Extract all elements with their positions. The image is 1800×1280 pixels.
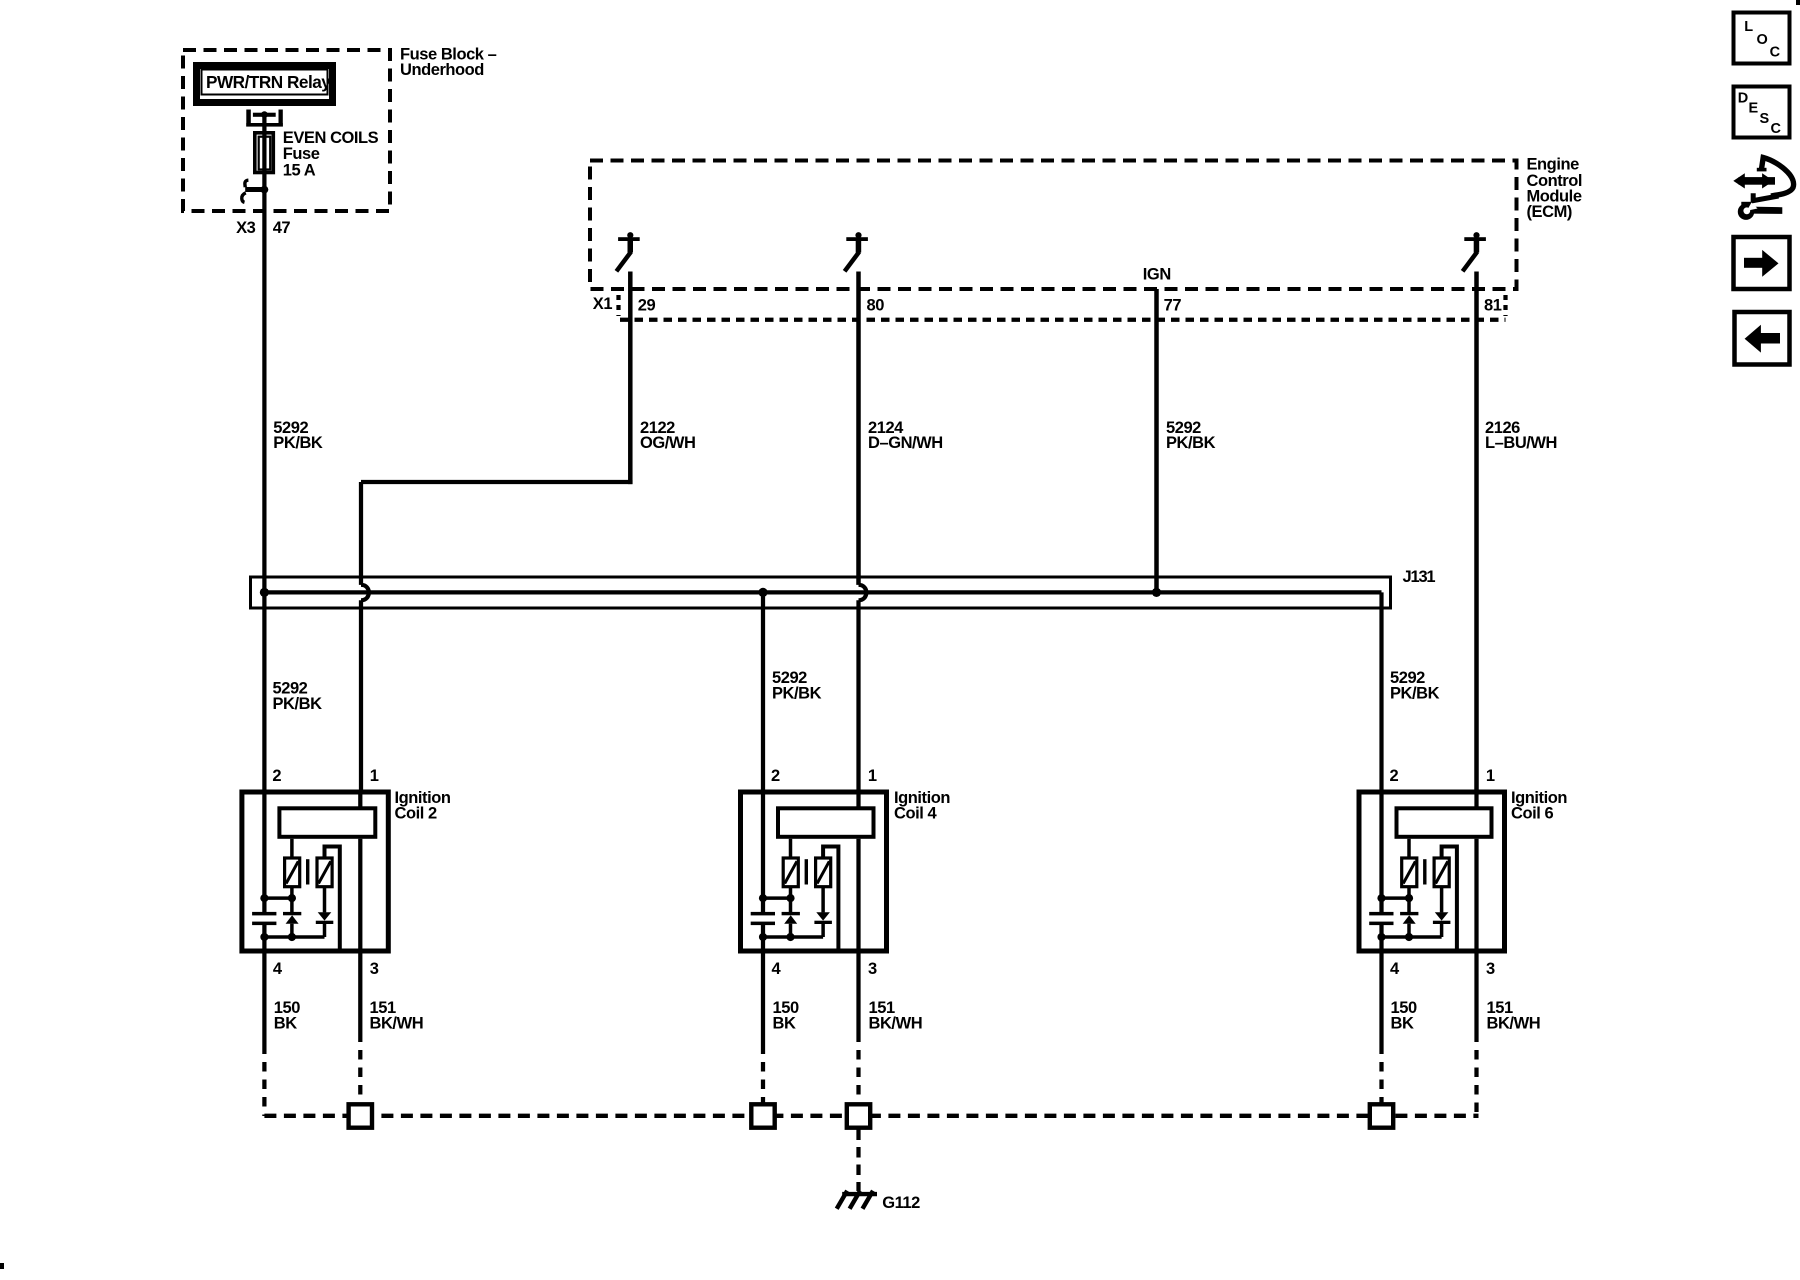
ignition coil 2 box <box>242 792 388 951</box>
hop of wire 2122 over splice bus <box>361 585 369 601</box>
coil 2 capacitor <box>252 912 276 916</box>
wire from relay through fuse <box>262 116 266 189</box>
ground stub to G112 <box>856 1130 860 1192</box>
coil 2 pin 1 internal lead <box>358 792 362 808</box>
svg-text:BK/WH: BK/WH <box>869 1014 923 1032</box>
svg-text:PWR/TRN Relay: PWR/TRN Relay <box>206 72 331 92</box>
svg-text:J131: J131 <box>1403 568 1436 586</box>
coil 4 capacitor <box>751 912 775 916</box>
pin 77 <box>1154 289 1159 592</box>
svg-text:L: L <box>1744 19 1753 35</box>
coil 6 secondary winding <box>1434 858 1449 887</box>
svg-text:PK/BK: PK/BK <box>273 695 323 713</box>
wire 2122 OG/WH vertical to coil 2 pin 1 <box>359 482 363 585</box>
coil 6 avalanche diode <box>1400 912 1418 915</box>
wire 5292 PK/BK from fuse block to splice <box>262 189 266 792</box>
ground bus dashed wire <box>264 1114 1478 1118</box>
wire 151 BK/WH coil 2 pin 3 <box>358 954 362 1043</box>
coil 6 node B jumper <box>1382 935 1442 939</box>
svg-text:80: 80 <box>867 296 885 314</box>
coil 4 node A jumper <box>763 896 791 900</box>
svg-text:2: 2 <box>272 767 281 785</box>
coil 2 node B jumper <box>264 935 324 939</box>
svg-text:Coil 6: Coil 6 <box>1511 804 1553 822</box>
coil 4 connector bar <box>778 808 874 837</box>
sidebar DESC icon <box>1734 87 1790 138</box>
wire 151 BK/WH coil 4 pin 3 <box>856 954 860 1043</box>
pin 81 <box>1474 272 1479 793</box>
svg-text:2: 2 <box>771 767 780 785</box>
svg-text:PK/BK: PK/BK <box>772 684 822 702</box>
svg-text:BK: BK <box>773 1014 796 1032</box>
svg-text:OG/WH: OG/WH <box>640 434 696 452</box>
coil 6 secondary diode <box>1440 887 1444 913</box>
splice square coil 2 pin 3 <box>349 1104 372 1127</box>
svg-text:15 A: 15 A <box>283 161 316 179</box>
svg-text:4: 4 <box>273 960 283 978</box>
svg-text:D: D <box>1738 90 1748 106</box>
relay K: PWR/TRN Relay label box <box>197 66 333 103</box>
coil 6 node A jumper <box>1382 896 1410 900</box>
svg-text:3: 3 <box>868 960 877 978</box>
coil 4 pin 3 internal lead <box>856 839 860 954</box>
coil 2 secondary diode <box>323 887 327 913</box>
svg-text:1: 1 <box>868 767 877 785</box>
svg-text:47: 47 <box>273 219 291 237</box>
svg-text:3: 3 <box>1486 960 1495 978</box>
wire 150 BK coil 6 pin 4 <box>1379 954 1383 1055</box>
svg-text:Engine: Engine <box>1527 156 1580 174</box>
svg-text:BK: BK <box>274 1014 297 1032</box>
coil 6 primary winding <box>1402 858 1417 887</box>
coil 4 primary winding top lead <box>789 839 793 857</box>
coil 2 primary winding top lead <box>290 839 294 857</box>
svg-text:C: C <box>1771 121 1782 137</box>
wire 150 BK coil 4 pin 4 <box>761 954 765 1055</box>
svg-text:4: 4 <box>1390 960 1400 978</box>
svg-text:Fuse: Fuse <box>283 145 320 163</box>
svg-text:77: 77 <box>1164 296 1182 314</box>
splice bus output to coil 6 pin 2 <box>1379 592 1383 792</box>
svg-text:E: E <box>1749 101 1759 117</box>
svg-text:L–BU/WH: L–BU/WH <box>1485 434 1557 452</box>
svg-text:29: 29 <box>638 296 656 314</box>
coil 6 connector bar <box>1397 808 1492 837</box>
coil 4 pin 1 internal lead <box>856 792 860 808</box>
pin 80 <box>856 272 861 585</box>
svg-text:PK/BK: PK/BK <box>273 434 323 452</box>
Engine Control Module dashed box <box>590 161 1517 290</box>
coil 2 primary winding <box>285 858 300 887</box>
coil 2 secondary winding <box>317 858 332 887</box>
svg-text:X3: X3 <box>236 219 256 237</box>
coil 2 pin 4 internal lead <box>262 925 266 954</box>
splice square coil 4 pin 3 <box>847 1104 870 1127</box>
coil 6 pin 3 internal lead <box>1474 839 1478 954</box>
coil 4 primary winding <box>783 858 798 887</box>
ECM output driver above pin 80 <box>855 232 861 238</box>
page corner marks <box>1796 0 1800 5</box>
junction node: IGN feed <box>1152 588 1161 597</box>
coil 2 pin 3 internal lead <box>358 839 362 954</box>
coil 6 pin 4 internal lead <box>1379 925 1383 954</box>
junction node: coil 4 pin 2 tap <box>758 588 767 597</box>
ignition coil 4 box <box>741 792 887 951</box>
coil 6 pin 1 internal lead <box>1474 792 1478 808</box>
pin 29 <box>628 272 633 485</box>
svg-text:Coil 4: Coil 4 <box>894 804 937 822</box>
pin row left dotted edge <box>616 295 620 316</box>
coil 4 node B jumper <box>763 935 823 939</box>
hop of wire 2124 over splice bus <box>859 585 867 601</box>
svg-text:3: 3 <box>370 960 379 978</box>
svg-text:BK/WH: BK/WH <box>1487 1014 1541 1032</box>
ECM pin row dotted bottom line <box>620 318 1506 322</box>
svg-text:PK/BK: PK/BK <box>1390 684 1440 702</box>
coil 6 primary bottom lead <box>1407 887 1411 913</box>
fuse block - underhood dashed box <box>183 50 390 211</box>
svg-text:1: 1 <box>370 767 379 785</box>
coil 2 connector bar <box>279 808 375 837</box>
ECM output driver above pin 29 <box>627 232 633 238</box>
splice square coil 6 pin 4 <box>1370 1104 1393 1127</box>
svg-text:BK/WH: BK/WH <box>370 1014 424 1032</box>
wire coil 4 pin 2 drop <box>761 592 765 792</box>
coil 2 avalanche diode <box>283 912 301 915</box>
sidebar wiring repair icon (arrows and wrench) <box>1762 158 1794 197</box>
coil 2 secondary output to tower <box>325 847 340 952</box>
relay switch contact <box>245 180 249 187</box>
wire 2124 D-GN/WH to coil 4 pin 1 <box>856 600 860 792</box>
coil 6 core <box>1423 859 1426 884</box>
coil 6 primary winding top lead <box>1407 839 1411 857</box>
wrench of repair icon <box>1750 207 1782 214</box>
splice bus center wire <box>264 590 1381 594</box>
svg-text:Underhood: Underhood <box>400 61 484 79</box>
wire 2122 OG/WH jog from pin 29 <box>361 480 633 484</box>
relay contact terminal symbol <box>246 110 251 127</box>
svg-text:1: 1 <box>1486 767 1495 785</box>
coil 4 core <box>805 859 808 884</box>
svg-text:S: S <box>1760 111 1770 127</box>
svg-text:X1: X1 <box>593 295 613 313</box>
svg-text:G112: G112 <box>882 1194 920 1212</box>
ground symbol G112 <box>842 1192 877 1196</box>
sidebar LOC icon <box>1734 13 1790 64</box>
pin row right dotted edge <box>1503 295 1507 316</box>
fuse F: EVEN COILS Fuse 15 A <box>255 133 273 173</box>
coil 4 secondary output to tower <box>823 847 838 952</box>
coil 4 pin 2 internal lead <box>761 792 765 912</box>
coil 4 primary bottom lead <box>789 887 793 913</box>
svg-text:BK: BK <box>1391 1014 1414 1032</box>
splice square coil 4 pin 4 <box>751 1104 774 1127</box>
sidebar back arrow icon <box>1735 312 1790 365</box>
coil 6 secondary output to tower <box>1442 847 1457 952</box>
coil 2 pin 2 internal lead <box>262 792 266 912</box>
coil 2 core <box>306 859 309 884</box>
coil 2 primary bottom lead <box>290 887 294 913</box>
wire 151 BK/WH coil 6 pin 3 <box>1474 954 1478 1043</box>
coil 6 pin 2 internal lead <box>1379 792 1383 912</box>
wire 150 BK coil 2 pin 4 <box>262 954 266 1055</box>
svg-text:O: O <box>1757 32 1768 48</box>
svg-text:IGN: IGN <box>1143 265 1171 283</box>
coil 4 secondary diode <box>821 887 825 913</box>
svg-text:PK/BK: PK/BK <box>1166 434 1216 452</box>
svg-text:D–GN/WH: D–GN/WH <box>868 434 943 452</box>
svg-text:2: 2 <box>1390 767 1399 785</box>
coil 2 node A jumper <box>264 896 292 900</box>
ECM output driver above pin 81 <box>1473 232 1479 238</box>
svg-text:(ECM): (ECM) <box>1527 203 1572 221</box>
coil 6 capacitor <box>1369 912 1393 916</box>
sidebar forward arrow icon <box>1734 237 1790 289</box>
svg-text:Coil 2: Coil 2 <box>395 804 437 822</box>
coil 4 avalanche diode <box>782 912 800 915</box>
svg-text:C: C <box>1770 44 1781 60</box>
coil 4 secondary winding <box>816 858 831 887</box>
svg-text:81: 81 <box>1484 296 1502 314</box>
ignition coil 6 box <box>1359 792 1505 951</box>
coil 4 pin 4 internal lead <box>761 925 765 954</box>
svg-text:4: 4 <box>772 960 782 978</box>
splice pack J131 outline <box>251 577 1391 608</box>
junction node: fuse feed <box>260 588 269 597</box>
